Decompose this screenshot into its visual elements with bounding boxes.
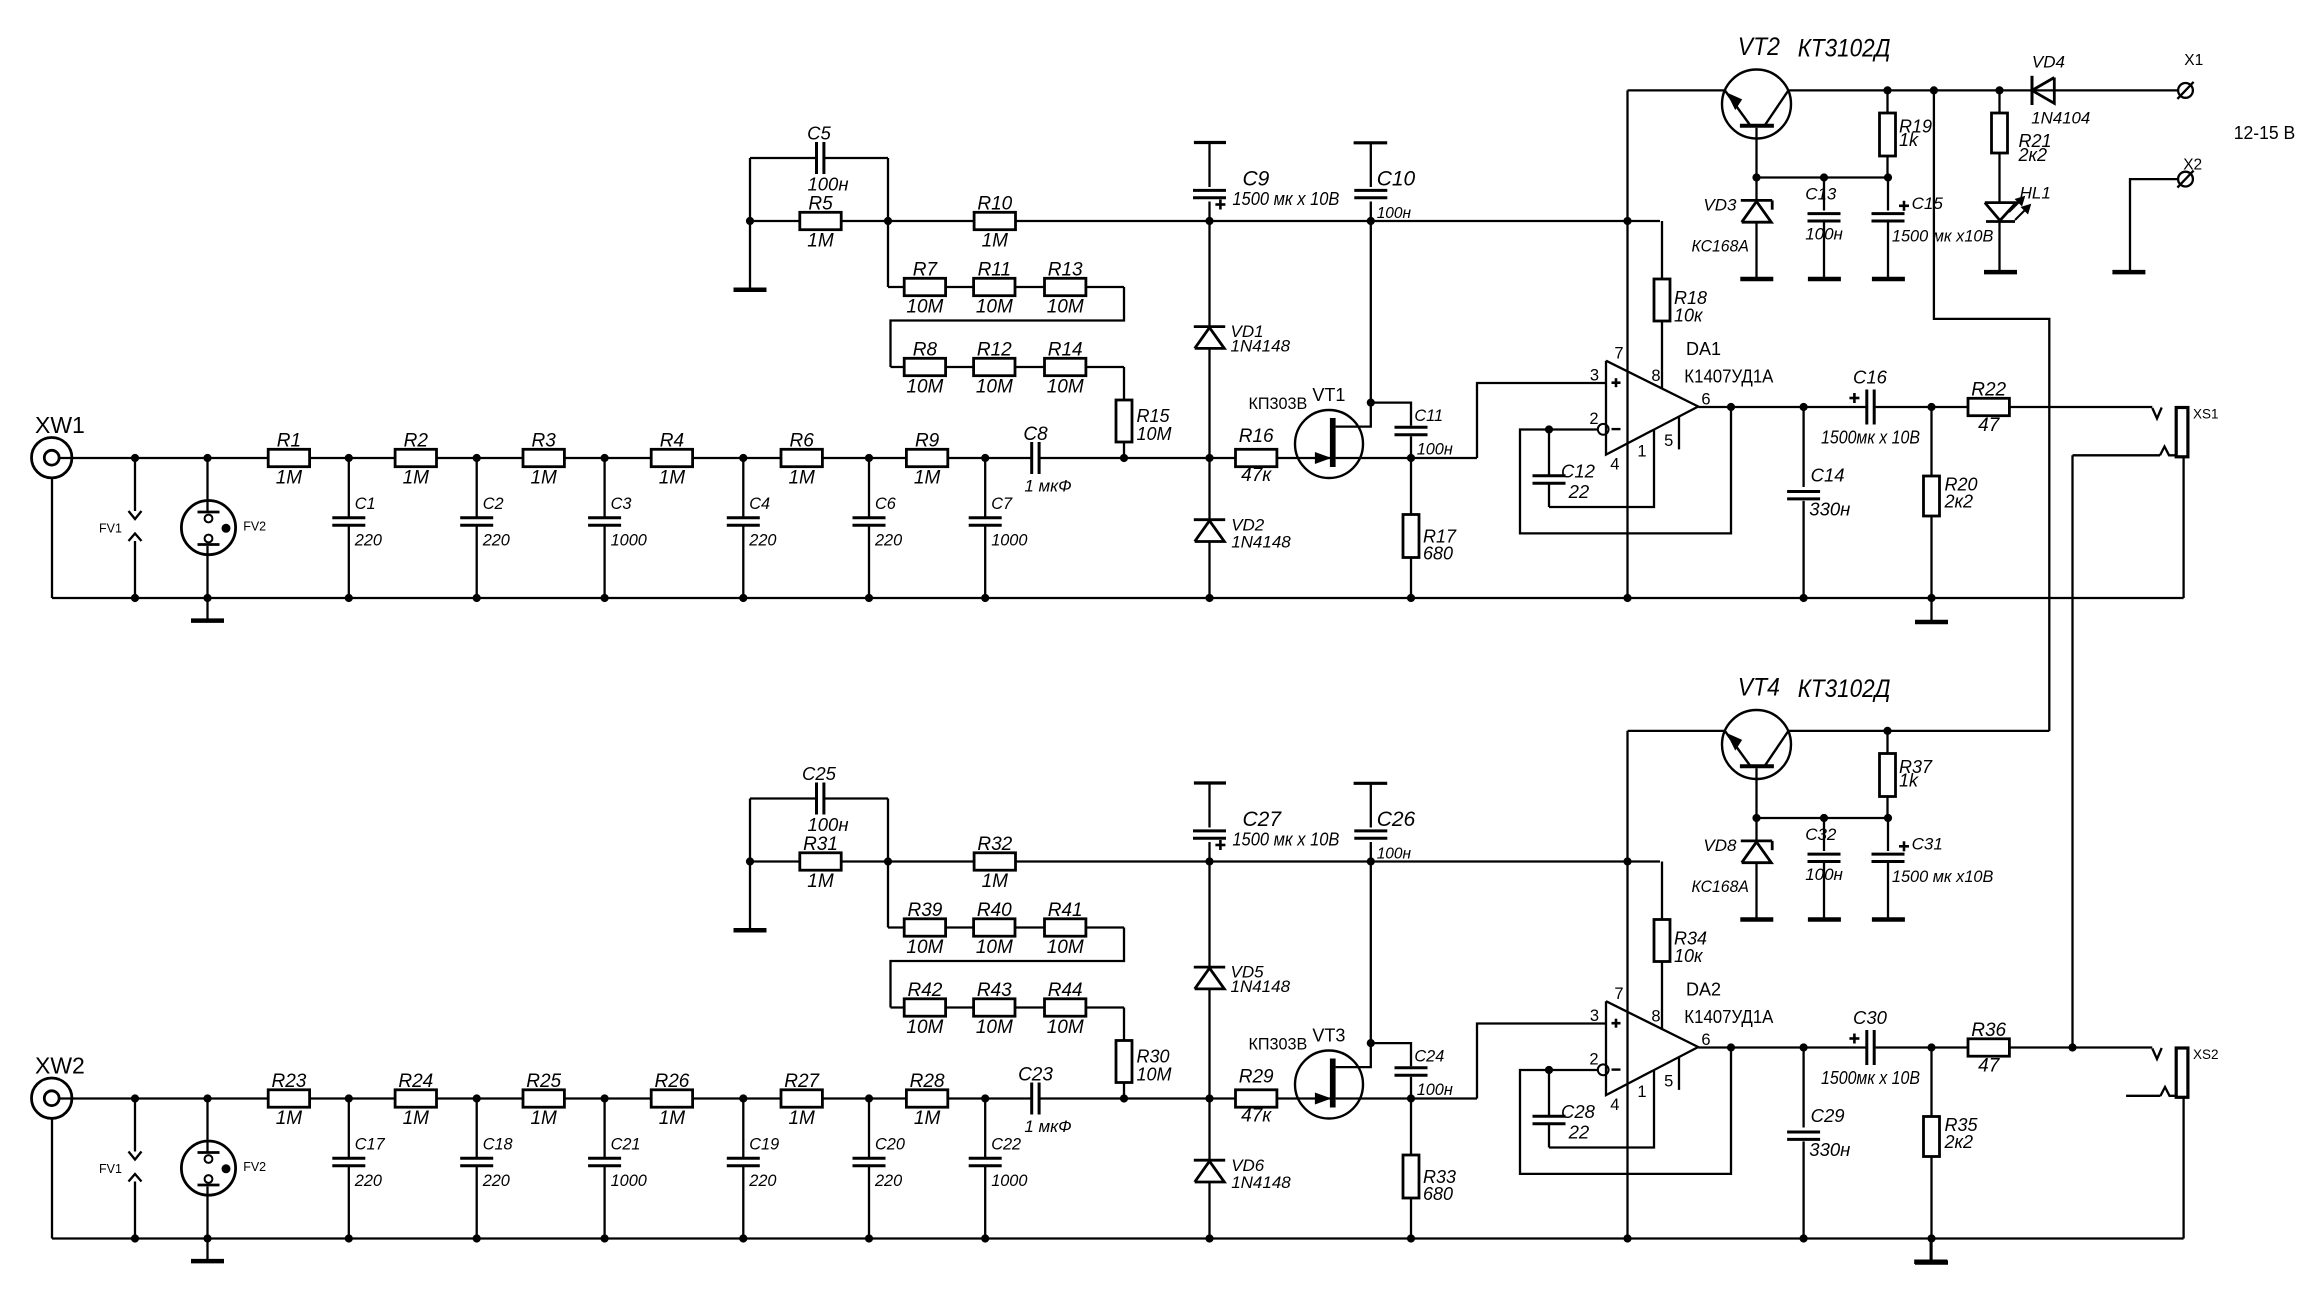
svg-text:3: 3 — [1590, 1007, 1599, 1025]
wire R15 to signal — [1123, 1083, 1125, 1099]
resistor R2 — [395, 449, 436, 466]
svg-text:КТ3102Д: КТ3102Д — [1798, 675, 1891, 703]
svg-text:47к: 47к — [1241, 1106, 1272, 1127]
svg-text:C18: C18 — [483, 1136, 513, 1154]
pin 5 stub — [1678, 417, 1680, 450]
svg-text:1 мкФ: 1 мкФ — [1024, 1117, 1071, 1136]
svg-text:R43: R43 — [977, 980, 1012, 1001]
svg-text:1M: 1M — [807, 871, 834, 892]
resistor R20 — [1930, 407, 1932, 476]
svg-text:R5: R5 — [808, 194, 833, 215]
wire R15 to signal — [1123, 442, 1125, 458]
svg-text:R44: R44 — [1048, 980, 1083, 1001]
svg-text:FV1: FV1 — [99, 522, 122, 536]
resistor R17 — [1403, 515, 1419, 558]
resistor R36 — [1968, 1039, 2009, 1056]
resistor R42 — [904, 999, 945, 1016]
svg-text:1N4104: 1N4104 — [2031, 109, 2090, 128]
wire between VD1 and VD2 — [1208, 989, 1210, 1160]
svg-text:10M: 10M — [1137, 1065, 1172, 1085]
svg-text:C15: C15 — [1912, 194, 1944, 213]
wire zener rail — [1757, 817, 1889, 819]
svg-text:C6: C6 — [875, 495, 897, 513]
transistor VT3 КП303В JFET — [1295, 1051, 1363, 1119]
gate arrow — [1315, 453, 1330, 464]
svg-text:2к2: 2к2 — [1944, 492, 1974, 512]
svg-text:C20: C20 — [875, 1136, 905, 1154]
svg-text:VT1: VT1 — [1312, 385, 1345, 405]
svg-text:C31: C31 — [1912, 835, 1943, 854]
op-amp DA2 К1407УД1А — [1606, 1001, 1698, 1095]
svg-text:VT4: VT4 — [1738, 674, 1780, 702]
svg-text:10M: 10M — [976, 937, 1013, 958]
svg-text:1N4148: 1N4148 — [1231, 337, 1291, 356]
svg-text:C23: C23 — [1018, 1065, 1053, 1086]
wire signal line (input RC ladder) — [59, 457, 1032, 459]
svg-text:C9: C9 — [1243, 168, 1270, 191]
svg-text:10к: 10к — [1674, 946, 1704, 966]
pin 2 wire — [1549, 1069, 1598, 1071]
svg-text:8: 8 — [1651, 1008, 1660, 1026]
wire 10M ladder row 1 — [888, 926, 1124, 928]
svg-text:1500 мк x10В: 1500 мк x10В — [1892, 867, 1994, 886]
wire C10 down to VT drain junction — [1370, 842, 1372, 1043]
zener VD8 КС168А — [1755, 818, 1757, 841]
svg-text:XW1: XW1 — [35, 412, 85, 438]
svg-text:1M: 1M — [276, 468, 303, 489]
capacitor C1 — [348, 458, 350, 518]
svg-text:1M: 1M — [982, 231, 1009, 252]
svg-text:C16: C16 — [1853, 367, 1888, 388]
resistor R16 — [1236, 449, 1277, 466]
svg-text:2к2: 2к2 — [2018, 145, 2048, 165]
svg-text:100н: 100н — [1805, 225, 1843, 244]
svg-text:1000: 1000 — [611, 1172, 647, 1190]
svg-text:C5: C5 — [807, 123, 831, 144]
wire R5/R10 feed line — [750, 860, 1660, 862]
svg-text:10к: 10к — [1674, 306, 1704, 326]
resistor R23 — [268, 1090, 309, 1107]
diode VD5 1N4148 — [1194, 966, 1225, 969]
svg-text:R16: R16 — [1239, 426, 1274, 447]
capacitor C19 — [742, 1099, 744, 1159]
wire signal line after C8 — [1039, 1097, 1330, 1099]
svg-text:C12: C12 — [1561, 461, 1596, 482]
svg-text:C21: C21 — [611, 1136, 641, 1154]
wire C5 right leg — [887, 799, 889, 928]
resistor R30 — [1116, 1041, 1132, 1083]
zener VD3 КС168А — [1755, 178, 1757, 201]
wire after C16 — [1876, 406, 2153, 408]
svg-text:1500 мк x 10В: 1500 мк x 10В — [1232, 830, 1339, 850]
arrester FV2 — [181, 500, 235, 554]
svg-text:R23: R23 — [271, 1071, 306, 1092]
svg-text:R29: R29 — [1239, 1067, 1274, 1088]
svg-text:VT2: VT2 — [1738, 33, 1780, 61]
op-amp DA1 К1407УД1А — [1606, 361, 1698, 455]
svg-text:R15: R15 — [1137, 406, 1171, 426]
svg-text:C27: C27 — [1243, 808, 1283, 831]
capacitor C31 1500 мк x10В — [1887, 818, 1889, 851]
arrester FV2 — [181, 1141, 235, 1195]
capacitor C8 series 1 мкФ — [1030, 442, 1033, 474]
svg-text:220: 220 — [874, 531, 902, 549]
wire +V rail left segment — [1628, 89, 1725, 91]
resistor R27 — [781, 1090, 822, 1107]
svg-text:2к2: 2к2 — [1944, 1132, 1974, 1152]
svg-text:330н: 330н — [1809, 499, 1850, 520]
resistor R34 pin 8 — [1661, 862, 1663, 920]
svg-text:22: 22 — [1568, 481, 1590, 502]
diode VD6 1N4148 — [1194, 1159, 1225, 1162]
svg-text:1M: 1M — [982, 871, 1009, 892]
pin 7 / pin 4 vertical — [1626, 90, 1628, 598]
capacitor C9 1500 мк x 10В with touch plate — [1194, 141, 1226, 144]
wire feed from +12V down to channel 2 — [1934, 90, 2049, 731]
resistor R4 — [651, 449, 692, 466]
wire to R17 — [1410, 458, 1412, 515]
resistor R35 — [1930, 1048, 1932, 1117]
svg-text:C29: C29 — [1811, 1105, 1845, 1126]
resistor R37 — [1886, 731, 1888, 754]
wire X2 to ground — [2130, 179, 2178, 270]
capacitor C6 — [868, 458, 870, 518]
wire XS jack sleeve to ground rail — [2182, 457, 2184, 598]
svg-text:220: 220 — [874, 1172, 902, 1190]
wire drain to C11 — [1371, 1043, 1411, 1066]
gate arrow — [1315, 1093, 1330, 1104]
ground below FV2 — [206, 1239, 208, 1261]
resistor R31 — [800, 853, 841, 870]
wire row2 to R15 — [1123, 1008, 1125, 1041]
svg-text:2: 2 — [1589, 1051, 1598, 1069]
wire ladder jog — [891, 287, 1125, 367]
wire 10M ladder row 2 — [891, 1006, 1125, 1008]
svg-text:6: 6 — [1701, 1031, 1710, 1049]
wire VD2 to rail — [1208, 542, 1210, 599]
resistor R29 — [1236, 1090, 1277, 1107]
diode VD4 1N4104 — [2031, 76, 2034, 105]
LED arrows — [2009, 199, 2022, 212]
svg-text:R26: R26 — [654, 1071, 689, 1092]
resistor R22 — [1968, 398, 2009, 415]
svg-text:10M: 10M — [1047, 937, 1084, 958]
svg-text:10M: 10M — [1047, 377, 1084, 398]
svg-text:10M: 10M — [906, 297, 943, 318]
svg-text:4: 4 — [1610, 455, 1619, 473]
svg-text:10M: 10M — [976, 297, 1013, 318]
svg-text:220: 220 — [748, 1172, 776, 1190]
svg-text:C1: C1 — [355, 495, 376, 513]
svg-text:1M: 1M — [914, 468, 941, 489]
wire feedback loop pin2 to output — [1520, 407, 1731, 534]
svg-text:10M: 10M — [976, 377, 1013, 398]
wire VT source to op-amp path — [1336, 1097, 1477, 1099]
wire after C16 — [1876, 1046, 2153, 1048]
svg-text:XS1: XS1 — [2193, 407, 2219, 422]
svg-text:КП303В: КП303В — [1249, 394, 1308, 413]
capacitor C32 100н — [1823, 818, 1825, 851]
svg-text:7: 7 — [1614, 345, 1623, 363]
svg-text:R32: R32 — [977, 834, 1012, 855]
capacitor C11 100н — [1395, 426, 1428, 429]
resistor R44 — [1045, 999, 1086, 1016]
resistor R24 — [395, 1090, 436, 1107]
svg-text:1000: 1000 — [611, 531, 647, 549]
svg-text:R10: R10 — [977, 194, 1012, 215]
terminal X1 — [2178, 83, 2193, 98]
wire 10M ladder row 2 — [891, 366, 1125, 368]
jack tip contact — [2152, 408, 2161, 419]
ground at C5 — [734, 928, 767, 933]
svg-text:1M: 1M — [807, 231, 834, 252]
wire VT drain — [1336, 403, 1371, 427]
resistor R41 — [1045, 919, 1086, 936]
svg-text:R1: R1 — [277, 431, 301, 452]
resistor R3 — [523, 449, 564, 466]
wire XW down to ground rail — [51, 478, 53, 598]
pin 7 / pin 4 vertical — [1626, 731, 1628, 1239]
capacitor C5 100н bypass — [750, 157, 817, 159]
svg-text:VT3: VT3 — [1312, 1026, 1345, 1046]
svg-text:47: 47 — [1978, 415, 2001, 436]
svg-text:C8: C8 — [1023, 424, 1048, 445]
pin 2 wire — [1549, 428, 1598, 430]
svg-text:5: 5 — [1664, 432, 1673, 450]
capacitor C13 100н — [1823, 178, 1825, 211]
svg-text:220: 220 — [354, 1172, 382, 1190]
svg-text:КТ3102Д: КТ3102Д — [1798, 35, 1891, 63]
svg-text:КП303В: КП303В — [1249, 1035, 1308, 1054]
svg-text:1 мкФ: 1 мкФ — [1024, 477, 1071, 496]
svg-text:10M: 10M — [906, 937, 943, 958]
svg-text:1M: 1M — [276, 1108, 303, 1129]
wire +V rail right of VT — [1788, 730, 2049, 732]
resistor R40 — [974, 919, 1015, 936]
terminal X2 — [2178, 172, 2193, 187]
ground below R35 — [1930, 1239, 1932, 1261]
resistor R18 pin 8 — [1661, 221, 1663, 279]
resistor R19 — [1886, 90, 1888, 113]
svg-text:1M: 1M — [530, 468, 557, 489]
svg-text:VD3: VD3 — [1703, 195, 1737, 214]
svg-text:C7: C7 — [991, 495, 1013, 513]
svg-text:HL1: HL1 — [2020, 183, 2051, 202]
jack tip contact — [2152, 1048, 2161, 1059]
svg-text:100н: 100н — [1417, 1081, 1453, 1099]
resistor R9 — [906, 449, 947, 466]
wire XW down to ground rail — [51, 1118, 53, 1238]
svg-text:100н: 100н — [807, 814, 848, 835]
svg-text:100н: 100н — [807, 174, 848, 195]
resistor R8 — [904, 358, 945, 375]
resistor R25 — [523, 1090, 564, 1107]
svg-text:R8: R8 — [913, 340, 938, 361]
capacitor C18 — [476, 1099, 478, 1159]
svg-text:1k: 1k — [1899, 771, 1919, 791]
svg-text:R3: R3 — [532, 431, 557, 452]
svg-text:10M: 10M — [976, 1017, 1013, 1038]
wire base lead — [1755, 128, 1757, 178]
svg-text:C22: C22 — [991, 1136, 1021, 1154]
wire zener rail — [1757, 176, 1889, 178]
transistor VT2 КТ3102Д — [1722, 70, 1791, 139]
svg-text:10M: 10M — [906, 377, 943, 398]
svg-text:1000: 1000 — [991, 531, 1027, 549]
resistor R14 — [1045, 358, 1086, 375]
svg-text:1: 1 — [1637, 1083, 1646, 1101]
resistor R13 — [1045, 278, 1086, 295]
resistor R32 — [974, 853, 1015, 870]
svg-text:10M: 10M — [906, 1017, 943, 1038]
svg-text:10M: 10M — [1047, 297, 1084, 318]
svg-text:4: 4 — [1610, 1096, 1619, 1114]
wire drain to C11 — [1371, 403, 1411, 426]
svg-text:R36: R36 — [1971, 1020, 2006, 1041]
svg-text:C4: C4 — [749, 495, 770, 513]
svg-text:1k: 1k — [1899, 130, 1919, 150]
wire to op-amp pin 3 — [1477, 1024, 1606, 1099]
wire 10M ladder row 1 — [888, 286, 1124, 288]
svg-text:1500мк x 10В: 1500мк x 10В — [1821, 426, 1920, 447]
wire C5 left leg / ground leg — [749, 158, 751, 288]
svg-text:FV1: FV1 — [99, 1162, 122, 1176]
capacitor C2 — [476, 458, 478, 518]
wire +V rail left segment — [1628, 730, 1725, 732]
svg-text:1500 мк x 10В: 1500 мк x 10В — [1232, 189, 1339, 209]
svg-text:XS2: XS2 — [2193, 1047, 2219, 1062]
diode VD2 1N4148 — [1194, 518, 1225, 521]
svg-text:FV2: FV2 — [243, 1160, 266, 1174]
svg-text:R25: R25 — [526, 1071, 561, 1092]
svg-text:C17: C17 — [355, 1136, 386, 1154]
wire base lead — [1755, 768, 1757, 818]
resistor R11 — [974, 278, 1015, 295]
ground below R20 — [1930, 1239, 1932, 1261]
svg-text:1N4148: 1N4148 — [1231, 977, 1291, 996]
svg-text:R13: R13 — [1048, 260, 1083, 281]
wire R5/R10 feed line — [750, 220, 1660, 222]
svg-text:R42: R42 — [907, 980, 942, 1001]
svg-text:1M: 1M — [659, 1108, 686, 1129]
svg-text:5: 5 — [1664, 1073, 1673, 1091]
wire to R17 — [1410, 1099, 1412, 1156]
capacitor C26 100н with touch plate — [1354, 782, 1388, 785]
svg-text:100н: 100н — [1805, 865, 1843, 884]
svg-text:1: 1 — [1637, 443, 1646, 461]
capacitor C21 — [603, 1099, 605, 1159]
svg-text:C3: C3 — [611, 495, 632, 513]
resistor R39 — [904, 919, 945, 936]
svg-text:8: 8 — [1651, 367, 1660, 385]
svg-text:3: 3 — [1590, 367, 1599, 385]
wire VT source to op-amp path — [1336, 457, 1477, 459]
wire C12 to pin 1 — [1549, 1070, 1654, 1147]
svg-text:1M: 1M — [403, 468, 430, 489]
capacitor C30 1500мк x 10В series — [1865, 1030, 1868, 1065]
svg-text:R4: R4 — [660, 431, 684, 452]
capacitor C10 100н with touch plate — [1354, 141, 1388, 144]
svg-text:R30: R30 — [1137, 1047, 1170, 1067]
svg-text:КС168А: КС168А — [1692, 877, 1749, 896]
svg-text:R24: R24 — [398, 1071, 433, 1092]
svg-text:100н: 100н — [1377, 205, 1412, 222]
wire op-amp output — [1698, 406, 1865, 408]
svg-text:C30: C30 — [1853, 1007, 1888, 1028]
resistor R12 — [974, 358, 1015, 375]
transistor VT4 КТ3102Д — [1722, 710, 1791, 779]
connector XW1 input RCA jack — [32, 438, 72, 478]
svg-text:680: 680 — [1423, 544, 1453, 564]
resistor R21 — [1998, 90, 2000, 114]
svg-text:2: 2 — [1589, 410, 1598, 428]
wire C10 down to VT drain junction — [1370, 202, 1372, 403]
svg-text:1N4148: 1N4148 — [1231, 1173, 1291, 1192]
svg-text:VD4: VD4 — [2032, 52, 2065, 71]
resistor R5 — [800, 212, 841, 229]
connector XW2 input RCA jack — [32, 1078, 72, 1118]
svg-text:1M: 1M — [788, 468, 815, 489]
svg-text:100н: 100н — [1377, 846, 1412, 863]
wire C5 right leg — [887, 158, 889, 287]
capacitor C29 330н — [1802, 1048, 1804, 1128]
svg-text:C25: C25 — [802, 763, 837, 784]
svg-text:C2: C2 — [483, 495, 504, 513]
wire XS jack sleeve to ground rail — [2182, 1098, 2184, 1239]
svg-text:1M: 1M — [914, 1108, 941, 1129]
svg-text:VD8: VD8 — [1703, 836, 1737, 855]
resistor R7 — [904, 278, 945, 295]
wire feedback loop pin2 to output — [1520, 1047, 1731, 1174]
wire VT drain — [1336, 1043, 1371, 1067]
svg-text:R27: R27 — [784, 1071, 820, 1092]
wire between VD1 and VD2 — [1208, 348, 1210, 519]
wire signal line after C8 — [1039, 457, 1330, 459]
resistor R10 — [974, 212, 1015, 229]
svg-text:R40: R40 — [977, 900, 1012, 921]
resistor R1 — [268, 449, 309, 466]
svg-text:C26: C26 — [1377, 808, 1416, 831]
svg-text:DA2: DA2 — [1686, 980, 1721, 1000]
svg-text:C14: C14 — [1811, 465, 1845, 486]
svg-text:1500 мк x10В: 1500 мк x10В — [1892, 227, 1994, 246]
svg-text:1M: 1M — [403, 1108, 430, 1129]
wire op-amp output — [1698, 1046, 1865, 1048]
svg-text:1M: 1M — [788, 1108, 815, 1129]
ground at C5 — [734, 288, 767, 293]
capacitor C3 — [603, 458, 605, 518]
wire ladder jog — [891, 928, 1125, 1008]
svg-text:C13: C13 — [1805, 184, 1837, 203]
wire VD2 to rail — [1208, 1182, 1210, 1239]
svg-text:C24: C24 — [1414, 1048, 1444, 1066]
svg-text:1M: 1M — [659, 468, 686, 489]
wire row2 to R15 — [1123, 367, 1125, 400]
svg-text:R6: R6 — [790, 431, 815, 452]
svg-text:R22: R22 — [1971, 380, 2006, 401]
capacitor C12 22 — [1548, 430, 1550, 476]
wire C9 line down through VD diodes — [1208, 202, 1210, 327]
svg-text:R11: R11 — [978, 260, 1011, 281]
svg-text:FV2: FV2 — [243, 520, 266, 534]
svg-text:R41: R41 — [1048, 900, 1083, 921]
svg-text:220: 220 — [354, 531, 382, 549]
svg-text:R14: R14 — [1048, 340, 1083, 361]
wire C5 left leg / ground leg — [749, 799, 751, 929]
ground below FV2 — [206, 598, 208, 620]
svg-text:12-15 В: 12-15 В — [2234, 122, 2296, 143]
resistor R6 — [781, 449, 822, 466]
